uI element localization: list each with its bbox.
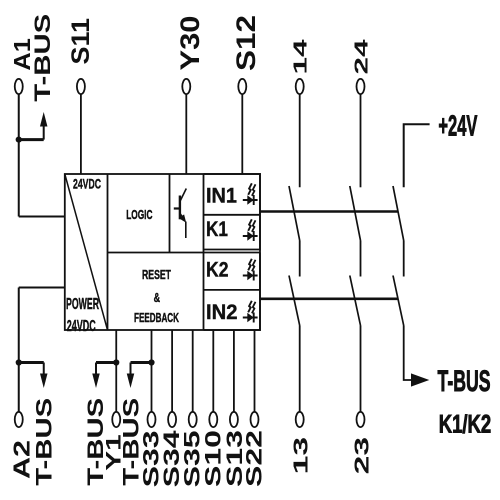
svg-text:14: 14 bbox=[291, 40, 311, 75]
svg-text:POWER: POWER bbox=[66, 296, 99, 313]
svg-text:A2: A2 bbox=[8, 440, 34, 479]
svg-text:S11: S11 bbox=[67, 18, 95, 65]
svg-text:13: 13 bbox=[291, 437, 313, 475]
wire A1 vertical bbox=[18, 94, 20, 216]
wire +24V corner bbox=[404, 124, 430, 187]
terminal S33 bbox=[148, 412, 156, 427]
svg-text:+24V: +24V bbox=[438, 110, 477, 142]
wire 24 to contact bbox=[360, 94, 362, 187]
arrow T-BUS down S33 bbox=[130, 363, 132, 375]
svg-text:S12: S12 bbox=[231, 15, 261, 71]
svg-text:RESET: RESET bbox=[142, 267, 171, 282]
LED IN2 bbox=[243, 301, 258, 323]
wire K1 actuation bus bbox=[260, 210, 398, 213]
svg-text:K2: K2 bbox=[206, 259, 229, 282]
arrow T-BUS down A2 bbox=[43, 363, 45, 375]
contact +24V/T-BUS path bbox=[393, 186, 411, 380]
power diagonal bbox=[65, 174, 108, 330]
LED IN1 bbox=[243, 183, 258, 205]
wire S22 bbox=[254, 330, 256, 412]
contact K2 path 24/23 bbox=[350, 186, 361, 412]
terminal S12 bbox=[238, 79, 246, 94]
terminal Y1 bbox=[112, 412, 120, 427]
svg-text:T-BUS: T-BUS bbox=[32, 398, 57, 486]
terminal S34 bbox=[168, 412, 176, 427]
svg-text:Y30: Y30 bbox=[175, 16, 205, 71]
svg-text:23: 23 bbox=[351, 437, 373, 475]
terminal S10 bbox=[209, 412, 217, 427]
wire S12 bbox=[241, 94, 243, 174]
wire T-BUS jog Y1 bbox=[96, 361, 116, 364]
transistor Y30 output bbox=[174, 189, 187, 239]
wire S11 bbox=[80, 94, 82, 174]
svg-text:24: 24 bbox=[351, 40, 371, 75]
wire T-BUS jog S33 bbox=[131, 361, 152, 364]
wire K2 actuation bus bbox=[260, 297, 398, 300]
divider K2/IN2 bbox=[204, 289, 261, 291]
svg-text:FEEDBACK: FEEDBACK bbox=[134, 310, 179, 325]
wire S35 bbox=[192, 330, 194, 412]
divider power section bbox=[107, 174, 109, 330]
wire S10 bbox=[212, 330, 214, 412]
terminal 24 bbox=[357, 79, 365, 94]
node S33 junction bbox=[148, 359, 154, 365]
terminal A1 bbox=[15, 79, 23, 94]
arrow T-BUS right bbox=[411, 373, 429, 386]
LED K2 bbox=[243, 259, 258, 281]
node A1/T-BUS junction bbox=[16, 137, 22, 143]
svg-text:24VDC: 24VDC bbox=[73, 176, 101, 192]
contact K1 path 14/13 bbox=[289, 186, 300, 412]
LED K1 bbox=[243, 219, 258, 241]
wire 14 to contact bbox=[299, 94, 301, 187]
svg-text:24VDC: 24VDC bbox=[67, 318, 96, 335]
wire A1 to box bbox=[19, 216, 65, 218]
terminal Y30 bbox=[182, 79, 190, 94]
divider reset horizontal bbox=[108, 252, 261, 254]
wire Y1 bbox=[115, 330, 117, 412]
terminal S13 bbox=[230, 412, 238, 427]
terminal S35 bbox=[189, 412, 197, 427]
svg-text:S22: S22 bbox=[242, 430, 267, 487]
terminal 23 bbox=[357, 412, 365, 427]
svg-text:IN1: IN1 bbox=[206, 185, 237, 208]
terminal S22 bbox=[251, 412, 259, 427]
led column box K2/IN2 bbox=[204, 253, 261, 331]
terminal A2 bbox=[15, 412, 23, 427]
divider logic/transistor cell bbox=[169, 174, 171, 253]
terminal 14 bbox=[296, 79, 304, 94]
node A2/T-BUS junction bbox=[16, 359, 22, 365]
terminal S11 bbox=[77, 79, 85, 94]
wire T-BUS jog top bbox=[19, 138, 44, 141]
wire S34 bbox=[171, 330, 173, 412]
svg-text:K1: K1 bbox=[206, 218, 228, 241]
wire S13 bbox=[233, 330, 235, 412]
wire A2 to box bbox=[19, 287, 65, 289]
wire S33 bbox=[151, 330, 153, 412]
divider IN1/K1 bbox=[204, 214, 261, 216]
led column box K1/IN1 bbox=[204, 174, 261, 250]
svg-text:&: & bbox=[154, 290, 161, 305]
svg-text:IN2: IN2 bbox=[206, 301, 238, 324]
wire Y30 bbox=[185, 94, 187, 174]
wire T-BUS jog A2 bbox=[19, 361, 44, 364]
terminal 13 bbox=[296, 412, 304, 427]
arrow T-BUS up bbox=[43, 126, 45, 140]
divider middle/led column bbox=[203, 174, 205, 330]
wire A2 vertical bbox=[18, 288, 20, 412]
main box outline bbox=[65, 174, 260, 330]
node Y1 junction bbox=[113, 359, 119, 365]
svg-text:T-BUS: T-BUS bbox=[30, 14, 55, 102]
svg-text:LOGIC: LOGIC bbox=[126, 208, 152, 222]
svg-text:K1/K2: K1/K2 bbox=[439, 411, 492, 439]
arrow T-BUS down Y1 bbox=[95, 363, 97, 375]
svg-text:T-BUS: T-BUS bbox=[438, 365, 491, 398]
